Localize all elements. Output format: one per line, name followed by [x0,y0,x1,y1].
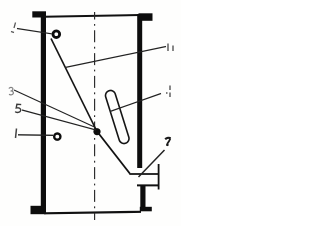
right wall top flange cap [139,13,153,20]
fitting ring (bottom) [54,134,60,140]
leader line to label 6 [65,47,166,68]
leader line to label 4 [18,134,53,137]
label 7 [165,138,171,140]
bottom line [44,212,141,214]
inlet fitting ring (top) [53,31,60,38]
left wall [41,12,46,214]
leader line to label 3 [14,90,96,128]
label 5 [15,104,21,112]
funnel diagonal [98,132,130,174]
outlet pipe foot [140,207,152,212]
left wall bottom flange cap [31,206,47,214]
label 8 strokes [166,86,170,98]
outlet stub bottom line [137,184,159,186]
leader line to label 1 (top left) [17,29,52,34]
pivot dot [93,128,100,135]
right wall [137,14,142,168]
inclined rod [51,39,97,132]
leader line to label 7 [139,150,165,177]
left wall top flange cap [32,11,46,17]
leader line to label 5 [22,110,96,130]
outlet flange line [158,164,160,190]
label 3 [9,87,14,95]
outlet stub top line [129,173,159,175]
top cover line [44,15,140,17]
label 4 stroke [16,129,17,139]
centerline (dash-dot axis) [94,12,96,220]
label 1 tick (top left) [11,23,16,33]
sight-glass capsule [105,90,129,143]
label 6 strokes [168,44,173,52]
outlet pipe [140,185,145,208]
leader line to label 8 (capsule) [110,94,161,112]
